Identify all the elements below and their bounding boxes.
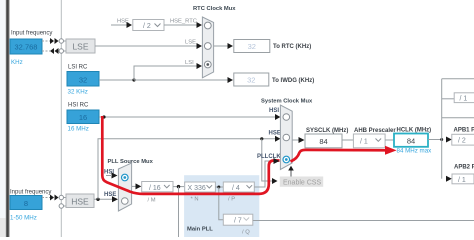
sys mux input PLLCLK radio (selected, blue) xyxy=(283,156,290,163)
wire OSC32_IN dashed xyxy=(42,40,50,42)
pin OSC32_OUT xyxy=(59,49,63,53)
red arrowhead at HCLK xyxy=(385,146,397,155)
svg-text:Enable CSS: Enable CSS xyxy=(283,180,321,187)
svg-text:LSE: LSE xyxy=(72,42,88,52)
svg-text:/ 2: / 2 xyxy=(143,23,151,30)
OSC_IN double arrow xyxy=(50,195,54,201)
svg-text:/ Q: / Q xyxy=(242,230,250,236)
svg-text:Input frequency: Input frequency xyxy=(10,190,51,196)
RTC mux input LSE radio xyxy=(204,43,211,50)
arrow HSE into system mux xyxy=(275,136,280,142)
PLL mux input HSI radio (selected, blue) xyxy=(122,174,129,181)
wire LSI up to RTC mux xyxy=(134,66,198,80)
arrow into /M xyxy=(136,183,142,189)
oscillator LSI RC box 32 xyxy=(67,72,99,87)
svg-text:84: 84 xyxy=(319,137,327,146)
wire HCLK to bus column xyxy=(428,139,442,141)
divider PLL Q /7 dropdown xyxy=(223,214,253,225)
divider AHB prescaler /1 dropdown xyxy=(353,134,385,148)
wire SYSCLK to AHB xyxy=(342,139,353,141)
svg-text:APB1 Pre: APB1 Pre xyxy=(454,128,474,134)
svg-text:LSI RC: LSI RC xyxy=(68,65,88,71)
svg-text:* N: * N xyxy=(191,197,199,203)
svg-text:8: 8 xyxy=(24,199,28,208)
svg-text:32 KHz: 32 KHz xyxy=(68,89,88,96)
junction HCLK xyxy=(440,138,443,141)
svg-text:84: 84 xyxy=(407,137,415,146)
red highlight path HSI to PLL to HCLK xyxy=(102,116,279,194)
red highlight path out of system mux xyxy=(291,150,386,162)
divider APB2 prescaler /1 dropdown xyxy=(452,174,474,184)
svg-text:/ P: / P xyxy=(228,197,235,203)
svg-text:/ 2: / 2 xyxy=(458,138,466,145)
node IWDG frequency box 32 xyxy=(234,73,269,86)
svg-text:16: 16 xyxy=(79,113,87,122)
arrow HSE_RTC into RTC mux xyxy=(197,22,203,28)
wire branch to cortex /1 xyxy=(442,98,455,100)
multiplier PLL N X336 dropdown xyxy=(185,182,216,192)
junction HSE to CSS xyxy=(260,137,263,140)
wire pin to HSE xyxy=(64,197,67,199)
arrow into RTC box xyxy=(228,43,234,49)
arrow HSI into PLL mux xyxy=(112,173,118,179)
node: HSE input frequency value box 8 xyxy=(10,196,42,210)
svg-text:1-50 MHz: 1-50 MHz xyxy=(10,215,37,222)
wire bus column vertical xyxy=(441,79,443,179)
wire CSS up arrow xyxy=(290,170,292,177)
node: LSE input frequency value box 32.768 xyxy=(10,39,42,54)
wire junction down to PLLI2S xyxy=(178,187,180,237)
node RTC frequency box 32 xyxy=(234,40,270,53)
button Enable CSS xyxy=(280,177,323,187)
wire HSE riser to system mux xyxy=(98,139,276,200)
wire HSE to PLL mux xyxy=(94,198,113,200)
svg-text:Input frequency: Input frequency xyxy=(11,31,52,37)
wire P output to PLLCLK xyxy=(254,161,273,187)
svg-text:HSE: HSE xyxy=(104,192,116,198)
sys mux input HSE radio xyxy=(283,134,290,141)
junction HSI xyxy=(102,115,105,118)
svg-text:/ 16: / 16 xyxy=(149,185,161,192)
arrow into Enable CSS xyxy=(272,178,278,184)
mux RTC Clock Mux trapezoid xyxy=(202,17,213,78)
svg-text:/ 7: / 7 xyxy=(234,218,242,225)
svg-text:32: 32 xyxy=(248,42,256,51)
svg-text:To RTC (KHz): To RTC (KHz) xyxy=(273,44,311,50)
wire AHB to HCLK xyxy=(385,139,394,141)
wire branch top to edge xyxy=(442,78,474,80)
pin OSC_OUT xyxy=(59,204,63,208)
oscillator LSE box xyxy=(66,39,95,53)
wire HSE down to CSS xyxy=(262,139,273,181)
wire N to P xyxy=(215,186,223,188)
wire pin to LSE xyxy=(64,40,67,42)
wire sys mux to SYSCLK xyxy=(292,139,299,141)
svg-text:Main PLL: Main PLL xyxy=(187,227,213,233)
wire divider to RTC mux xyxy=(164,24,198,26)
svg-text:/ 1: / 1 xyxy=(460,95,468,102)
divider APB1 prescaler /2 dropdown xyxy=(452,134,474,145)
svg-text:HSE: HSE xyxy=(269,131,281,137)
svg-text:System Clock Mux: System Clock Mux xyxy=(261,99,313,105)
wire branch mid to edge xyxy=(442,117,474,119)
svg-text:LSE: LSE xyxy=(185,40,196,46)
svg-text:16 MHz: 16 MHz xyxy=(68,126,89,133)
svg-text:HSI: HSI xyxy=(269,108,279,114)
PLL mux input HSE radio xyxy=(122,198,129,205)
svg-text:To IWDG (KHz): To IWDG (KHz) xyxy=(272,78,314,84)
wire PLL mux to /M xyxy=(132,185,136,187)
wire LSE to RTC mux xyxy=(95,45,198,47)
svg-text:HSI RC: HSI RC xyxy=(68,103,89,109)
arrow HSI into system mux xyxy=(275,114,280,120)
svg-text:/ 1: / 1 xyxy=(458,177,466,184)
arrow into APB1 xyxy=(446,137,452,143)
oscillator HSI RC box 16 xyxy=(67,110,99,124)
arrow into IWDG box xyxy=(228,77,234,83)
wire /M to PLL xyxy=(173,186,185,188)
junction LSI xyxy=(132,78,135,81)
svg-text:RTC Clock Mux: RTC Clock Mux xyxy=(193,6,236,12)
oscillator HSE box xyxy=(66,194,94,208)
wire pin to LSE xyxy=(64,50,67,52)
arrow LSI into RTC mux xyxy=(197,63,203,69)
junction HSE riser xyxy=(96,198,99,201)
svg-text:SYSCLK (MHz): SYSCLK (MHz) xyxy=(306,128,348,134)
mux PLL Source Mux xyxy=(118,163,131,211)
svg-text:32: 32 xyxy=(247,76,255,85)
left margin panel xyxy=(0,0,7,237)
svg-text:KHz: KHz xyxy=(11,59,23,66)
junction N output xyxy=(217,186,220,189)
divider PLL M /16 dropdown xyxy=(142,182,173,192)
pin OSC_IN xyxy=(59,195,63,199)
svg-text:X 336: X 336 xyxy=(188,185,206,192)
left dark divider bar xyxy=(5,0,8,237)
svg-text:LSI: LSI xyxy=(185,60,194,66)
wire elbow into APB2 xyxy=(446,176,452,182)
svg-text:32: 32 xyxy=(79,75,87,84)
svg-text:/ 4: / 4 xyxy=(232,185,240,192)
wire OSC_IN dashed xyxy=(42,197,50,199)
wire Q output to right edge xyxy=(253,220,474,222)
divider PLL P /4 dropdown xyxy=(223,182,254,192)
wire pin to HSE bottom xyxy=(64,205,67,207)
node HCLK box 84 (highlighted) xyxy=(394,134,428,147)
RTC mux input LSI radio (selected) xyxy=(204,61,211,68)
arrow into RTC divider xyxy=(127,22,133,28)
panel Main PLL xyxy=(184,175,259,237)
arrow into SYSCLK xyxy=(299,137,305,143)
svg-text:HSE_RTC: HSE_RTC xyxy=(170,19,197,25)
svg-text:84 MHz max: 84 MHz max xyxy=(397,148,433,155)
RTC mux input HSE_RTC radio xyxy=(204,22,211,29)
pin OSC32_IN xyxy=(59,39,63,43)
OSC32_OUT double arrow (left) xyxy=(50,48,54,54)
svg-text:32.768: 32.768 xyxy=(15,43,38,52)
wire HSI arrow stub xyxy=(106,175,112,177)
mux System Clock Mux xyxy=(280,105,292,169)
sys mux input HSI radio xyxy=(283,114,290,121)
wire LSI to junction xyxy=(99,79,134,81)
wire LSI to IWDG xyxy=(134,79,228,81)
svg-text:APB2 Pre: APB2 Pre xyxy=(454,165,474,171)
svg-text:PLLCLK: PLLCLK xyxy=(257,154,281,160)
svg-text:/ M: / M xyxy=(148,198,156,204)
wire HSE to RTC divider xyxy=(111,24,127,26)
svg-text:HSE: HSE xyxy=(71,196,89,206)
svg-text:AHB Prescaler: AHB Prescaler xyxy=(354,128,396,134)
arrow LSE into RTC mux xyxy=(197,43,203,49)
OSC32_IN double arrow xyxy=(50,38,54,44)
junction PLL input xyxy=(177,185,180,188)
wire OSC32_OUT dashed xyxy=(42,50,50,52)
svg-text:/ 1: / 1 xyxy=(360,139,368,146)
wire RTC mux to RTC box xyxy=(214,45,228,47)
divider HSE_RTC /2 dropdown xyxy=(133,20,164,31)
wire HSI to system mux xyxy=(99,116,276,118)
node SYSCLK box 84 xyxy=(305,134,342,148)
wire N junction down to Q xyxy=(219,187,223,220)
arrow HSE into PLL mux xyxy=(112,196,118,202)
chip boundary pin line xyxy=(60,0,62,237)
divider Cortex /1 box xyxy=(454,93,474,103)
arrow PLLCLK into system mux xyxy=(274,158,280,164)
